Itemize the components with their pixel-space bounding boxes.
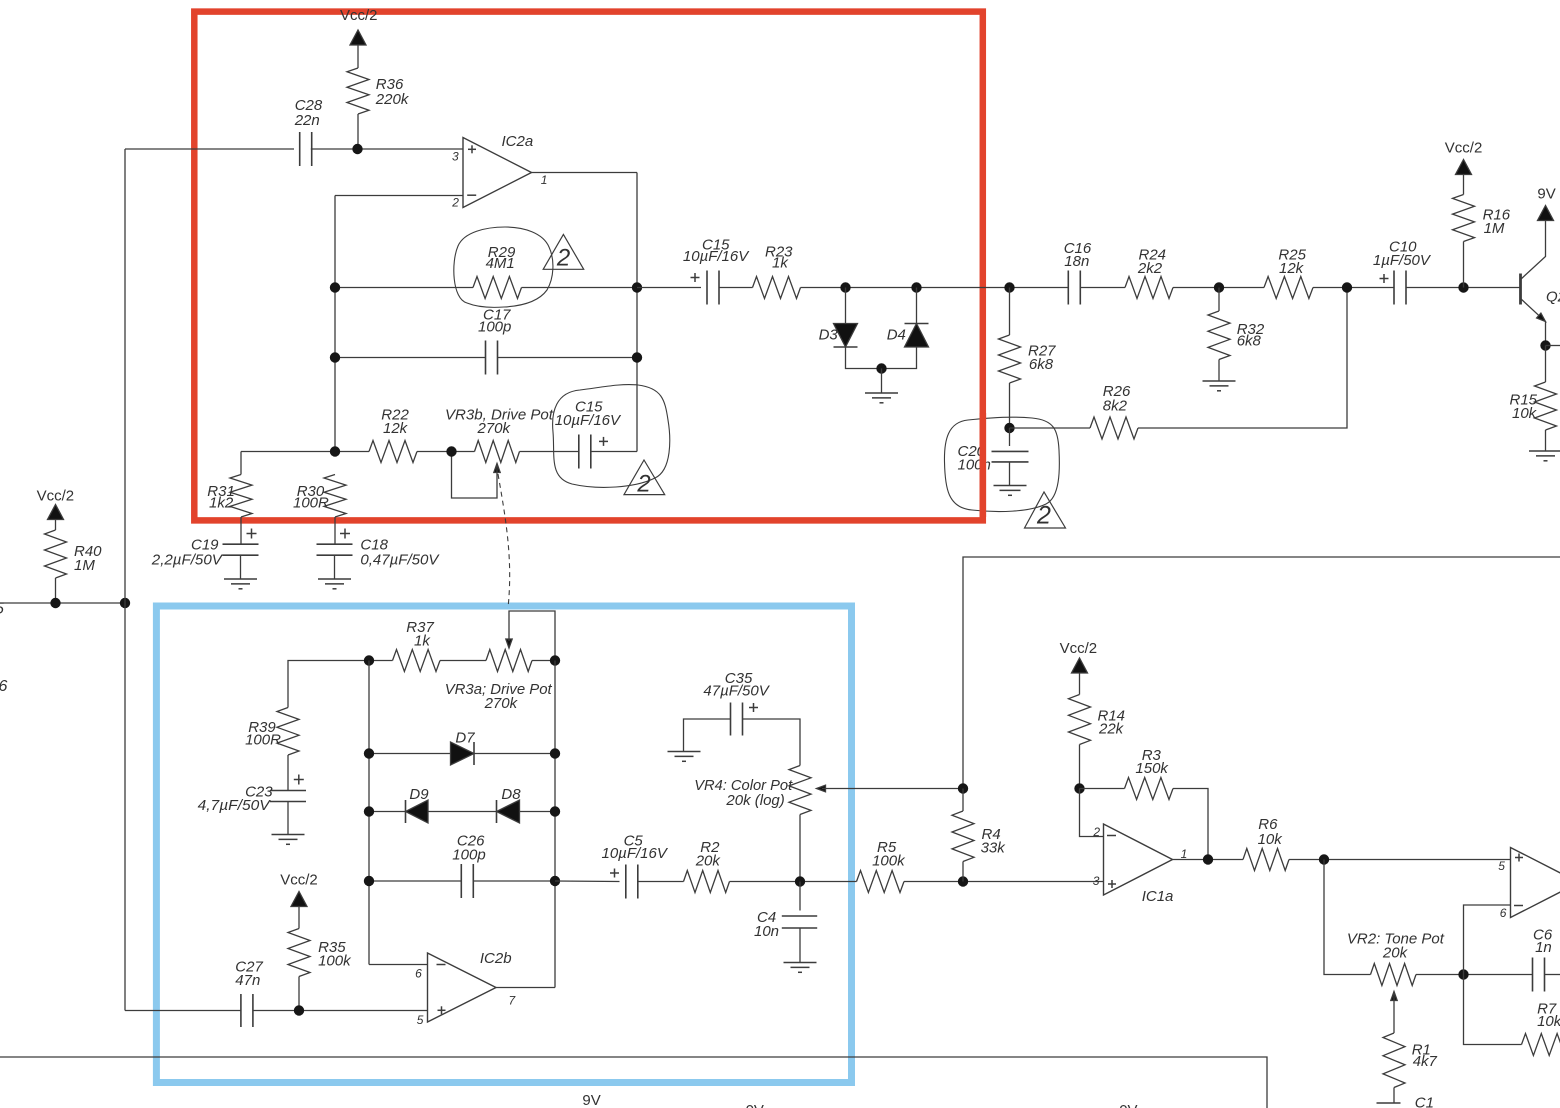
- svg-text:12k: 12k: [383, 420, 409, 437]
- svg-text:100k: 100k: [872, 853, 906, 870]
- svg-text:100p: 100p: [452, 847, 485, 864]
- Vcc/2 power symbol (R14): [1060, 640, 1098, 695]
- svg-text:47n: 47n: [235, 972, 260, 989]
- wire R37 to VR3a: [440, 660, 486, 662]
- svg-text:10µF/16V: 10µF/16V: [555, 412, 622, 429]
- blue highlight box (clipping stage 1): [156, 606, 851, 1083]
- wire emitter off-page: [1546, 345, 1560, 347]
- svg-text:150k: 150k: [1135, 760, 1169, 777]
- capacitor C15 10uF/16V (lower): [555, 399, 622, 469]
- node R29 right: [632, 282, 642, 292]
- wire left diode bus x=369: [368, 661, 370, 965]
- wire D7 left: [369, 753, 451, 755]
- VR3a wiper: [506, 611, 555, 661]
- capacitor C15 10uF/16V (upper): [683, 237, 750, 305]
- triangle marker 2 (C15): [624, 460, 665, 498]
- capacitor C6 1n: [1533, 927, 1553, 992]
- annotation blob around R29: [454, 227, 553, 307]
- wire R31 to R22: [241, 451, 369, 453]
- wire R25 to C10: [1313, 287, 1394, 289]
- VR2 wiper: [1391, 992, 1397, 1034]
- resistor R25 12k: [1264, 247, 1313, 299]
- wire output bus (vertical x=637): [636, 173, 638, 452]
- node D4 top: [911, 282, 921, 292]
- wire bus to IC2b inv: [369, 964, 428, 966]
- wire C28 to IC2a pin3: [311, 148, 463, 150]
- resistor R36 220k: [347, 68, 410, 149]
- node IC1a out: [1203, 854, 1213, 864]
- svg-text:20k: 20k: [1382, 945, 1409, 962]
- wire IC1a inv input: [1080, 789, 1104, 837]
- op-amp IC2b: [415, 950, 516, 1027]
- wire IC2b output: [496, 987, 555, 989]
- Vcc/2 power symbol (R35): [280, 872, 318, 929]
- svg-text:1k2: 1k2: [209, 495, 234, 512]
- node R37 left: [364, 655, 374, 665]
- svg-text:10k: 10k: [1512, 405, 1538, 422]
- diode D7: [451, 730, 476, 766]
- capacitor C10 1uF/50V: [1373, 239, 1432, 305]
- svg-text:100k: 100k: [318, 953, 352, 970]
- resistor R40 1M: [45, 530, 103, 603]
- potentiometer VR3b Drive Pot 270k: [445, 407, 554, 463]
- capacitor C16 18n: [1064, 240, 1092, 305]
- svg-text:18n: 18n: [1064, 253, 1089, 270]
- svg-text:220k: 220k: [375, 91, 410, 108]
- node D8 right: [550, 806, 560, 816]
- node R32 top: [1214, 282, 1224, 292]
- svg-text:0,47µF/50V: 0,47µF/50V: [360, 552, 440, 569]
- wire C5 to R2: [638, 881, 684, 883]
- potentiometer VR4 Color Pot 20k: [694, 766, 811, 815]
- node D7 left: [364, 748, 374, 758]
- resistor R32 6k8: [1208, 288, 1265, 382]
- svg-text:3: 3: [1093, 874, 1100, 888]
- svg-text:0V: 0V: [1119, 1102, 1137, 1108]
- resistor R15 10k: [1510, 346, 1557, 452]
- svg-text:2: 2: [636, 471, 650, 498]
- ground C19: [224, 578, 257, 580]
- svg-text:3: 3: [452, 150, 459, 164]
- svg-text:2: 2: [1092, 825, 1100, 839]
- svg-text:D4: D4: [887, 327, 906, 344]
- wire D8 right: [520, 811, 556, 813]
- svg-text:47µF/50V: 47µF/50V: [703, 683, 770, 700]
- svg-text:1k: 1k: [772, 255, 789, 272]
- svg-text:Vcc/2: Vcc/2: [37, 488, 75, 505]
- svg-text:270k: 270k: [477, 420, 512, 437]
- svg-text:6k8: 6k8: [1029, 356, 1054, 373]
- wire node to C15b: [637, 287, 701, 289]
- svg-text:IC1a: IC1a: [1142, 888, 1174, 905]
- wire R26 to C10 node: [1138, 288, 1347, 429]
- svg-text:2: 2: [1036, 502, 1051, 530]
- svg-text:22n: 22n: [294, 112, 320, 129]
- wire C20 to R26: [1010, 427, 1091, 429]
- node R29 left: [330, 282, 340, 292]
- ground D3/D4: [865, 392, 898, 394]
- svg-text:1n: 1n: [1535, 939, 1552, 956]
- svg-text:100p: 100p: [478, 319, 511, 336]
- capacitor C17 100p: [478, 307, 511, 375]
- svg-text:2: 2: [556, 245, 570, 272]
- svg-text:33k: 33k: [981, 840, 1007, 857]
- svg-text:1: 1: [541, 173, 548, 187]
- node C26 right: [550, 876, 560, 886]
- wire node to IC1b pin6: [1464, 905, 1511, 975]
- node R14 bottom: [1074, 783, 1084, 793]
- node R16 bottom: [1458, 282, 1468, 292]
- node input tee: [120, 598, 130, 608]
- svg-text:1k: 1k: [414, 633, 431, 650]
- capacitor C5 10uF/16V: [602, 833, 669, 899]
- wire node to R7: [1464, 975, 1522, 1045]
- resistor R27 6k8: [999, 288, 1057, 429]
- wire top feedback rail: [963, 557, 1560, 789]
- wire R22 to VR3b: [417, 451, 475, 453]
- svg-text:100R: 100R: [293, 495, 329, 512]
- diode D4: [884, 288, 929, 369]
- svg-text:D8: D8: [501, 786, 521, 803]
- 9V power symbol (Q2): [1537, 186, 1555, 221]
- node C17 left: [330, 352, 340, 362]
- op-amp IC1b (partial): [1498, 848, 1560, 921]
- wire VR3a to node: [532, 660, 555, 662]
- capacitor C1 (partial at edge): [1377, 1095, 1434, 1108]
- wire left rail y=603: [0, 602, 125, 604]
- capacitor C19 2.2uF/50V: [151, 529, 259, 580]
- resistor R2 20k: [684, 839, 730, 893]
- wire R24 to R25: [1173, 287, 1264, 289]
- Vcc/2 power symbol (R40): [37, 488, 75, 531]
- wire C17 left: [335, 357, 486, 359]
- resistor R1 4k7: [1383, 1033, 1438, 1103]
- resistor R39 100R: [245, 708, 299, 791]
- wire D7 right: [474, 753, 555, 755]
- wire C35 right to VR4: [743, 719, 801, 766]
- ground C18: [318, 578, 351, 580]
- node VR3a right: [550, 655, 560, 665]
- svg-text:1µF/50V: 1µF/50V: [1373, 252, 1432, 269]
- svg-text:6: 6: [415, 967, 422, 981]
- resistor R24 2k2: [1125, 247, 1173, 299]
- diode D9: [406, 786, 430, 823]
- wire R29 feedback right: [522, 287, 638, 289]
- svg-text:9V: 9V: [1537, 186, 1555, 203]
- node C10 junction: [1342, 282, 1352, 292]
- wire D9 to D8: [428, 811, 497, 813]
- ground C35: [668, 751, 701, 753]
- capacitor C20 100n: [958, 428, 1029, 486]
- svg-text:Vcc/2: Vcc/2: [1445, 140, 1483, 157]
- node C26 left: [364, 876, 374, 886]
- svg-text:D9: D9: [409, 786, 429, 803]
- wire R2 to R5: [730, 881, 857, 883]
- wire R23 to C16: [801, 287, 1068, 289]
- svg-text:5: 5: [417, 1013, 424, 1027]
- svg-text:10k: 10k: [1537, 1013, 1560, 1030]
- ground R32: [1203, 380, 1236, 382]
- resistor R4 33k: [952, 789, 1006, 882]
- svg-text:10µF/16V: 10µF/16V: [683, 248, 750, 265]
- wire to ground D3D4: [881, 369, 883, 394]
- node R6 right: [1319, 854, 1329, 864]
- svg-text:2: 2: [451, 196, 459, 210]
- node D3 top: [840, 282, 850, 292]
- wire right bus x=555: [554, 661, 556, 988]
- diode D3: [819, 288, 879, 369]
- svg-text:20k (log): 20k (log): [725, 792, 784, 809]
- svg-text:5: 5: [0, 601, 4, 618]
- svg-text:20k: 20k: [695, 853, 722, 870]
- svg-text:C1: C1: [1415, 1095, 1434, 1108]
- op-amp IC1a: [1092, 824, 1187, 905]
- wire x125 to C27: [125, 1010, 241, 1012]
- svg-text:5: 5: [1498, 859, 1505, 873]
- svg-text:IC2a: IC2a: [502, 133, 534, 150]
- capacitor C28 22n: [294, 97, 323, 166]
- svg-text:10µF/16V: 10µF/16V: [602, 845, 669, 862]
- annotation blob around C15: [553, 385, 670, 488]
- svg-text:1M: 1M: [1484, 220, 1505, 237]
- wire D9 left: [369, 811, 406, 813]
- wire C17 right: [498, 357, 638, 359]
- resistor R14 22k: [1069, 695, 1126, 789]
- node A (C28/R36 junction): [352, 144, 362, 154]
- svg-text:100R: 100R: [245, 732, 281, 749]
- node x335 bottom: [330, 446, 340, 456]
- capacitor C35 47uF/50V: [703, 670, 770, 736]
- wire R5 to IC1a: [904, 881, 1104, 883]
- svg-text:IC2b: IC2b: [480, 950, 512, 967]
- capacitor C18 0.47uF/50V: [317, 529, 441, 580]
- wire R14 to R3: [1080, 788, 1125, 790]
- node VR4 bottom junction: [795, 876, 805, 886]
- node D3/D4 junction: [876, 363, 886, 373]
- node R35 bottom: [294, 1005, 304, 1015]
- wire R6 to IC1b: [1289, 859, 1511, 861]
- resistor R7 10k: [1522, 1001, 1560, 1056]
- resistor R3 150k: [1125, 747, 1174, 800]
- svg-text:4,7µF/50V: 4,7µF/50V: [198, 797, 272, 814]
- node D9 left: [364, 806, 374, 816]
- dashed link VR3b to VR3a: [498, 474, 510, 608]
- VR4 wiper: [817, 785, 964, 792]
- svg-text:Vcc/2: Vcc/2: [340, 7, 378, 24]
- svg-text:270k: 270k: [484, 695, 519, 712]
- wire R29 feedback left: [335, 287, 473, 289]
- svg-text:6: 6: [0, 678, 8, 695]
- svg-text:Q2: Q2: [1546, 289, 1560, 306]
- resistor R29 4M1: [473, 244, 522, 299]
- svg-text:D7: D7: [455, 730, 475, 747]
- wire R39 corner to R37: [288, 661, 393, 708]
- svg-text:Vcc/2: Vcc/2: [280, 872, 318, 889]
- resistor R37 1k: [393, 619, 441, 672]
- wire 9V rail: [0, 1057, 1267, 1108]
- Vcc/2 power symbol (R36): [340, 7, 378, 68]
- svg-text:6: 6: [1500, 906, 1507, 920]
- ground C20: [994, 485, 1027, 487]
- svg-text:10n: 10n: [754, 923, 779, 940]
- triangle marker 2 (C20): [1025, 492, 1066, 530]
- wire C16 to R24: [1081, 287, 1125, 289]
- capacitor C27 47n: [235, 959, 263, 1028]
- svg-text:0V: 0V: [746, 1102, 764, 1108]
- wire input bus vertical x=125: [124, 149, 126, 1011]
- annotation blob around C20: [944, 417, 1059, 511]
- wire R3 to output: [1173, 789, 1208, 860]
- svg-text:Vcc/2: Vcc/2: [1060, 640, 1098, 657]
- resistor R16 1M: [1453, 195, 1511, 288]
- wire C15b to R23: [719, 287, 753, 289]
- wire IC2a inverting input: [335, 195, 463, 197]
- node Q2 emitter: [1540, 340, 1550, 350]
- svg-text:6k8: 6k8: [1237, 333, 1262, 350]
- ground C4: [784, 962, 817, 964]
- ground C23: [272, 834, 305, 836]
- resistor R22 12k: [369, 407, 417, 463]
- resistor R23 1k: [753, 244, 801, 299]
- svg-text:2k2: 2k2: [1137, 260, 1163, 277]
- wire node to VR2: [1324, 860, 1371, 975]
- resistor R26 8k2: [1090, 383, 1138, 439]
- svg-text:4k7: 4k7: [1413, 1053, 1438, 1070]
- svg-text:D3: D3: [819, 327, 839, 344]
- wire C26node to C5: [555, 880, 620, 883]
- node R4 top: [958, 783, 968, 793]
- svg-text:22k: 22k: [1098, 721, 1125, 738]
- potentiometer VR2 Tone Pot 20k: [1347, 931, 1445, 986]
- node C17 right: [632, 352, 642, 362]
- wire inverting bus (vertical x=335): [334, 196, 336, 452]
- resistor R30 100R: [293, 475, 346, 544]
- wire C15 to output bus: [591, 451, 638, 453]
- node R4 bottom: [958, 876, 968, 886]
- resistor R5 100k: [857, 839, 907, 893]
- node VR3b wiper tie: [446, 446, 456, 456]
- resistor R31 1k2: [207, 452, 252, 544]
- wire VR4 bottom: [799, 815, 801, 882]
- wire C35 left to ground: [684, 719, 731, 752]
- triangle marker 2 (R29): [543, 234, 584, 271]
- VR3b wiper: [452, 452, 501, 499]
- wire IC1a out: [1173, 859, 1244, 861]
- capacitor C26 100p: [452, 833, 485, 899]
- node C20 top: [1004, 423, 1014, 433]
- node R27 top: [1004, 282, 1014, 292]
- svg-text:9V: 9V: [582, 1092, 600, 1108]
- wire C27 to IC2b: [253, 1010, 428, 1012]
- svg-text:1M: 1M: [74, 557, 95, 574]
- node C6 left: [1458, 969, 1468, 979]
- op-amp IC2a: [451, 133, 547, 210]
- potentiometer VR3a Drive Pot 270k: [445, 650, 553, 713]
- wire C26 left: [369, 880, 461, 882]
- svg-text:4M1: 4M1: [486, 255, 515, 272]
- transistor Q2: [1521, 221, 1560, 346]
- wire input to C28: [125, 148, 294, 150]
- red highlight box segment (over C20 area): [980, 413, 987, 517]
- diode D8: [497, 786, 522, 823]
- node R40 bottom: [50, 598, 60, 608]
- red highlight box (clipping stage 2): [194, 12, 983, 521]
- svg-text:8k2: 8k2: [1103, 398, 1128, 415]
- wire IC2a output: [532, 172, 638, 174]
- Vcc/2 power symbol (R16): [1445, 140, 1483, 195]
- wire VR2 to C6: [1416, 974, 1533, 976]
- node D7 right: [550, 748, 560, 758]
- svg-text:10k: 10k: [1258, 831, 1284, 848]
- capacitor C4 10n: [754, 882, 817, 963]
- svg-text:2,2µF/50V: 2,2µF/50V: [151, 552, 224, 569]
- wire C26 right: [474, 880, 556, 882]
- ground R15: [1529, 450, 1560, 452]
- capacitor C23 4.7uF/50V: [198, 775, 306, 835]
- resistor R6 10k: [1243, 816, 1289, 871]
- wire C6 right: [1545, 974, 1560, 976]
- wire C10 to Q2 base: [1407, 287, 1520, 289]
- resistor R35 100k: [288, 929, 352, 1011]
- wire VR3b to C15: [520, 451, 580, 453]
- svg-text:12k: 12k: [1279, 260, 1305, 277]
